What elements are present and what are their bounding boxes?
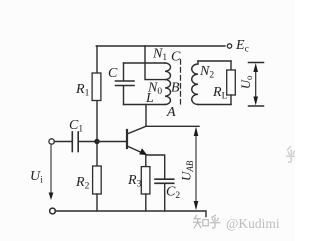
resistor RL	[227, 61, 236, 105]
wire Ec tap feed	[145, 46, 165, 80]
Ui arrow	[49, 146, 54, 201]
capacitor C tank	[116, 63, 135, 105]
svg-text:C1: C1	[69, 118, 83, 135]
transformer core dashed	[180, 60, 182, 105]
wire top supply rail	[96, 45, 225, 47]
junction dot base node	[94, 139, 99, 144]
inductor N1 N0 primary	[165, 63, 171, 105]
UAB dimension arrow	[194, 127, 199, 211]
svg-text:Uo: Uo	[239, 75, 254, 89]
svg-text:A: A	[166, 105, 176, 120]
wire left bias branch	[96, 46, 98, 142]
svg-text:Ec: Ec	[235, 38, 249, 55]
svg-text:N1: N1	[152, 47, 167, 64]
input terminal bottom	[50, 208, 56, 214]
capacitor C1	[55, 132, 98, 152]
resistor R1	[92, 73, 101, 101]
wire emitter	[147, 155, 165, 179]
capacitor C2	[155, 179, 174, 211]
svg-text:R3: R3	[127, 173, 142, 190]
svg-text:R1: R1	[75, 82, 90, 99]
svg-text:RL: RL	[212, 85, 228, 102]
svg-text:Ui: Ui	[30, 169, 43, 186]
svg-text:L: L	[145, 91, 154, 106]
svg-text:C: C	[171, 50, 181, 65]
transistor Q1	[127, 126, 147, 155]
wire bottom ground rail	[55, 211, 206, 217]
input terminal top	[49, 139, 54, 144]
svg-text:UAB: UAB	[179, 160, 196, 181]
watermark zhihu Kudimi	[194, 215, 220, 228]
resistor R2	[93, 142, 102, 212]
wire collector riser	[145, 105, 147, 127]
svg-text:B: B	[171, 81, 180, 96]
wire base	[97, 141, 126, 143]
wire secondary top	[198, 60, 231, 62]
wire tank top	[124, 62, 166, 64]
supply terminal Ec	[227, 44, 231, 48]
wire secondary bottom	[198, 104, 231, 106]
wire node A horizontal	[146, 125, 199, 127]
watermark fragment right edge	[287, 147, 295, 163]
svg-text:@Kudimi: @Kudimi	[226, 216, 280, 231]
svg-text:C: C	[108, 66, 118, 81]
svg-text:C2: C2	[166, 185, 180, 202]
inductor N2 secondary	[192, 61, 198, 105]
Uo dimension arrow	[249, 63, 264, 107]
svg-text:N2: N2	[199, 64, 214, 81]
wire tank bottom	[124, 104, 166, 106]
svg-text:R2: R2	[75, 175, 90, 192]
resistor R3	[141, 155, 150, 211]
